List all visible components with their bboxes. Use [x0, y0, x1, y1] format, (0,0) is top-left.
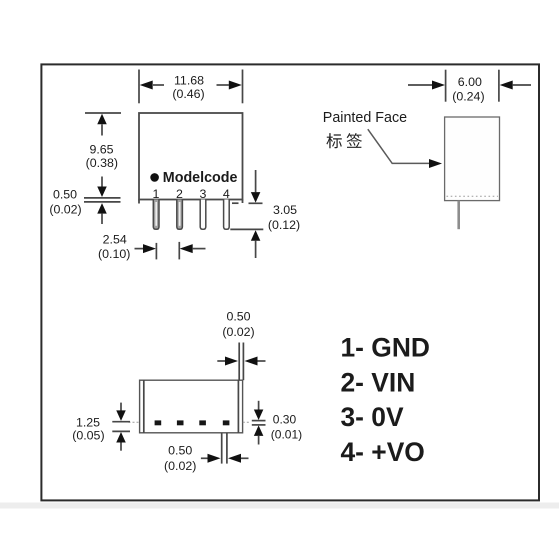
dim 11.68 arrow left: [140, 81, 153, 90]
dim 6.00 arrow right: [500, 81, 513, 90]
svg-text:(0.46): (0.46): [172, 87, 204, 101]
pin 2 lead (front view): [177, 200, 183, 230]
dim 9.65 top tick: [85, 112, 121, 114]
svg-text:1: 1: [153, 187, 160, 201]
svg-text:3.05: 3.05: [273, 203, 297, 217]
dim 0.30 upper arrow: [258, 401, 260, 410]
pin 1 center highlight: [155, 202, 157, 226]
svg-text:(0.02): (0.02): [222, 325, 254, 339]
dim 6.00 extension line right: [498, 70, 500, 102]
pin 1 pad (bottom view): [155, 420, 162, 425]
svg-text:(0.38): (0.38): [86, 156, 118, 170]
svg-text:(0.05): (0.05): [72, 428, 104, 442]
dim 9.65 bottom arrow: [101, 177, 103, 188]
package bottom corner steps: [138, 200, 140, 204]
svg-text:2.54: 2.54: [103, 233, 127, 247]
dim 0.30 ticks: [252, 420, 266, 422]
dim 0.50 top left arrow: [217, 360, 225, 362]
dim 2.54 tick pin2: [178, 242, 180, 260]
dim 3.05 bottom tick: [230, 228, 263, 230]
svg-text:3- 0V: 3- 0V: [341, 402, 404, 432]
dim 3.05 top tick: [249, 202, 263, 204]
pin 3 lead (front view): [200, 200, 206, 230]
dim 0.50 pin thickness lines: [84, 197, 121, 199]
bottom view package body: [140, 380, 243, 433]
svg-text:(0.24): (0.24): [452, 90, 484, 104]
svg-text:Painted Face: Painted Face: [323, 110, 407, 126]
side view base dotted line: [447, 195, 499, 197]
dim 2.54 left arrow: [135, 248, 145, 250]
svg-text:(0.01): (0.01): [271, 427, 302, 441]
dim 6.00 arrow left: [408, 84, 433, 86]
svg-text:Modelcode: Modelcode: [163, 170, 238, 186]
bottom view pin centreline dotted: [129, 421, 140, 423]
dim 0.50 bottom left arrow: [201, 457, 208, 459]
front view package body: [139, 113, 243, 200]
svg-text:0.30: 0.30: [273, 413, 297, 427]
dim 1.25 upper arrow: [120, 403, 122, 411]
scan shadow band: [0, 503, 559, 509]
dim 11.68 arrow right: [229, 81, 242, 90]
svg-text:0.50: 0.50: [168, 443, 192, 457]
svg-text:0.50: 0.50: [53, 187, 77, 201]
svg-text:9.65: 9.65: [89, 142, 113, 156]
svg-text:0.50: 0.50: [226, 310, 250, 324]
bottom view right wall line: [237, 380, 239, 433]
dim 0.50 lower arrow: [97, 203, 107, 214]
model code dot: [150, 173, 159, 182]
dim 0.50 pin width lines: [221, 433, 223, 464]
svg-text:11.68: 11.68: [174, 73, 204, 87]
pin 1 lead (front view): [153, 200, 159, 230]
dim 11.68 extension line left: [138, 70, 140, 104]
dim 1.25 ticks: [112, 421, 130, 423]
dim 6.00 extension line left: [445, 70, 447, 102]
pin 4 lead (front view): [224, 200, 230, 230]
pin 2 pad (bottom view): [177, 420, 184, 425]
label CJK 签: [347, 133, 362, 148]
svg-text:2- VIN: 2- VIN: [341, 367, 416, 397]
dim 0.50 wall lines: [238, 343, 240, 381]
svg-text:(0.12): (0.12): [268, 218, 300, 232]
bottom view left wall line: [143, 380, 145, 433]
label CJK 标: [326, 133, 341, 148]
svg-text:3: 3: [200, 187, 207, 201]
dim 2.54 right arrow: [180, 244, 193, 253]
svg-text:1- GND: 1- GND: [341, 333, 430, 363]
dim 2.54 tick pin1: [155, 243, 157, 260]
dim 0.50 bottom right arrow: [228, 454, 241, 463]
pin 2 center highlight: [179, 202, 181, 226]
svg-text:6.00: 6.00: [458, 75, 482, 89]
svg-text:(0.02): (0.02): [164, 459, 196, 473]
dim 1.25 lower arrow: [116, 432, 126, 443]
svg-text:(0.10): (0.10): [98, 247, 130, 261]
drawing frame border: [41, 64, 539, 500]
dim 3.05 bottom arrow: [251, 230, 261, 241]
dim 3.05 top arrow: [255, 170, 257, 192]
dim 0.30 lower arrow: [254, 425, 264, 436]
side view pin lead: [457, 201, 460, 230]
svg-text:2: 2: [176, 187, 183, 201]
leader arrowhead: [429, 159, 442, 168]
dim 9.65 top arrow: [97, 114, 107, 125]
dim 11.68 extension line right: [242, 70, 244, 104]
svg-text:1.25: 1.25: [76, 415, 100, 429]
svg-text:4- +VO: 4- +VO: [341, 437, 425, 467]
pin 4 pad (bottom view): [223, 420, 230, 425]
svg-text:4: 4: [223, 187, 230, 201]
pin 3 pad (bottom view): [199, 420, 206, 425]
leader line to painted face: [368, 129, 430, 163]
svg-text:(0.02): (0.02): [49, 202, 81, 216]
dim 0.50 top right arrow: [245, 357, 258, 366]
side view package body: [445, 117, 500, 201]
